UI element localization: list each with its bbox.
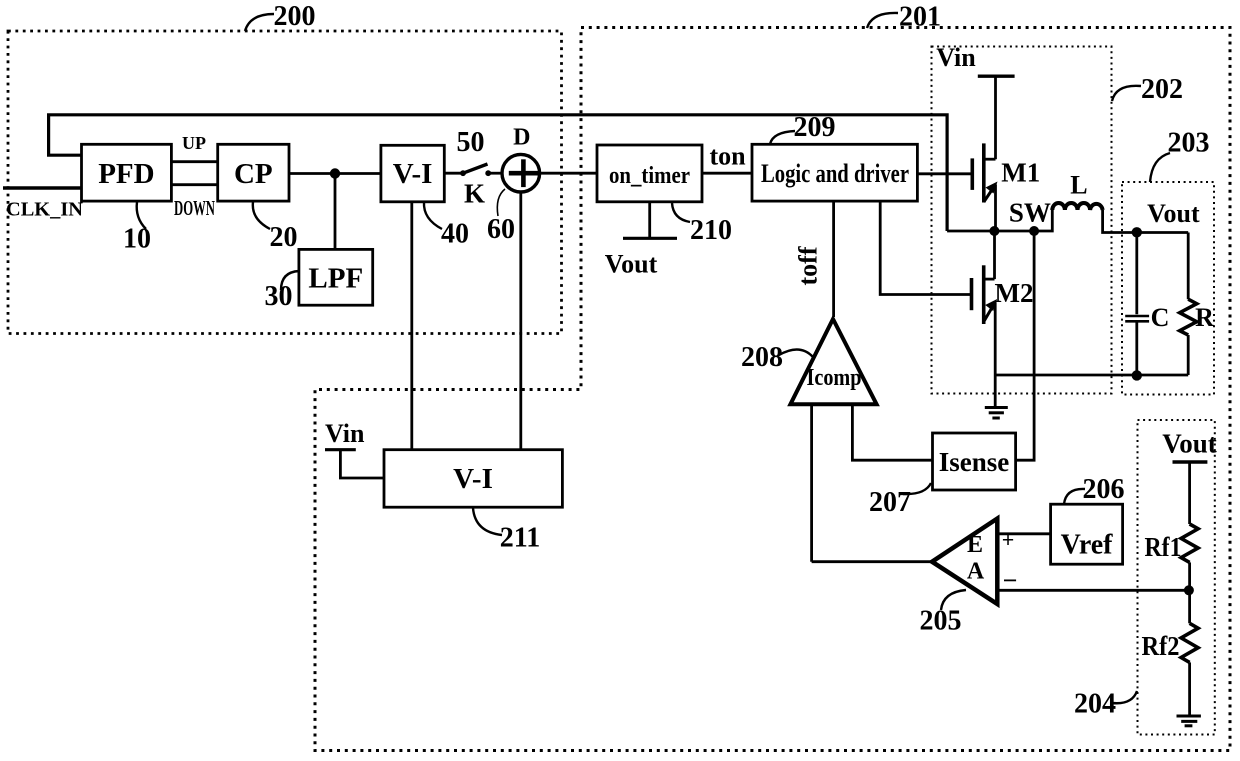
svg-text:Vout: Vout <box>1147 199 1200 228</box>
svg-text:60: 60 <box>487 214 515 245</box>
svg-text:Vout: Vout <box>605 250 658 279</box>
svg-text:206: 206 <box>1083 474 1125 505</box>
svg-text:A: A <box>967 559 985 585</box>
svg-text:+: + <box>1002 527 1015 552</box>
svg-text:Rf2: Rf2 <box>1142 631 1180 661</box>
svg-text:D: D <box>513 125 530 151</box>
svg-text:toff: toff <box>794 246 823 285</box>
svg-text:DOWN: DOWN <box>174 196 215 220</box>
svg-text:208: 208 <box>741 342 783 373</box>
svg-text:C: C <box>1151 303 1170 332</box>
svg-text:−: − <box>1003 566 1018 595</box>
svg-text:L: L <box>1070 171 1087 200</box>
svg-text:K: K <box>464 179 485 209</box>
svg-text:UP: UP <box>182 133 206 153</box>
svg-text:V-I: V-I <box>453 463 493 495</box>
svg-text:E: E <box>967 532 983 558</box>
svg-text:207: 207 <box>869 487 911 518</box>
svg-text:Vref: Vref <box>1061 530 1113 561</box>
svg-text:201: 201 <box>899 2 941 33</box>
svg-text:203: 203 <box>1168 128 1210 159</box>
svg-text:R: R <box>1195 303 1214 332</box>
svg-text:SW: SW <box>1009 198 1051 228</box>
svg-text:PFD: PFD <box>98 158 154 190</box>
svg-text:Vout: Vout <box>1162 429 1217 459</box>
svg-text:209: 209 <box>794 112 836 143</box>
svg-text:LPF: LPF <box>308 263 363 295</box>
svg-text:204: 204 <box>1074 689 1116 720</box>
svg-text:Vin: Vin <box>936 43 976 72</box>
svg-text:202: 202 <box>1141 74 1183 105</box>
svg-text:210: 210 <box>690 215 732 246</box>
svg-text:10: 10 <box>123 224 151 255</box>
svg-text:M2: M2 <box>995 278 1034 308</box>
svg-text:20: 20 <box>270 222 298 253</box>
svg-text:30: 30 <box>265 281 293 312</box>
svg-text:ton: ton <box>709 142 746 171</box>
svg-text:CLK_IN: CLK_IN <box>6 199 84 221</box>
svg-text:Vin: Vin <box>325 419 365 448</box>
svg-text:CP: CP <box>234 158 273 190</box>
svg-text:Rf1: Rf1 <box>1145 532 1182 562</box>
svg-text:V-I: V-I <box>393 158 433 190</box>
svg-text:M1: M1 <box>1001 158 1040 188</box>
svg-text:200: 200 <box>274 1 316 32</box>
svg-text:on_timer: on_timer <box>609 163 690 189</box>
svg-text:Isense: Isense <box>939 447 1010 477</box>
svg-text:205: 205 <box>920 606 962 637</box>
svg-text:50: 50 <box>457 127 485 158</box>
svg-text:211: 211 <box>500 523 540 554</box>
svg-text:Icomp: Icomp <box>807 365 862 391</box>
svg-text:40: 40 <box>441 219 469 250</box>
svg-text:Logic and driver: Logic and driver <box>761 159 909 188</box>
